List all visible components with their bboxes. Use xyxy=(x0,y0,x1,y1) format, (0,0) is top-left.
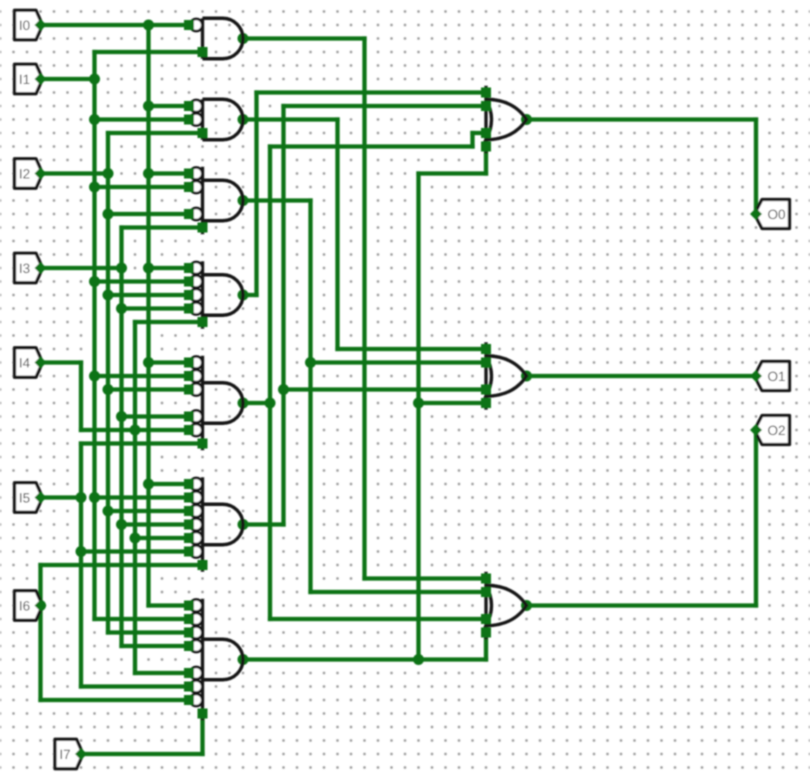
input pin I3 xyxy=(15,253,47,282)
OR gate U10 (4 inputs from U1,U3,U5,U7) driving O2 xyxy=(481,572,527,640)
AND gate U4, 5 inputs (~I0..~I3,I4), term 4 xyxy=(184,261,243,329)
wire net O1 (OR U9 output to pin O1) xyxy=(521,371,756,382)
input pin I2 xyxy=(15,159,47,188)
wire net I3 (pin I3 riser x=121.5 feeding U3.in4 and inverted inputs of U4..U7) xyxy=(41,228,203,647)
AND gate U7, 8 inputs (~I0..~I6,I7), term 7 xyxy=(184,599,243,721)
svg-text:I1: I1 xyxy=(19,72,30,87)
OR gate U9 (4 inputs from U2,U3,U6,U7) driving O1 xyxy=(481,342,527,410)
wire net U2 output (AND U2 to OR U9 input-1 via riser x=337.5) xyxy=(238,114,487,349)
wire net I4 (pin I4 elbow to riser x=135 feeding U4.in5 and inverted inputs of U5..U7) xyxy=(41,322,203,673)
wire net O2 (OR U10 output to pin O2) xyxy=(521,430,756,611)
wire net U7 output (AND U7 to OR U10 input-4, riser x=418.5 to OR U9 input-4 and OR U8 input-4) xyxy=(238,147,487,666)
wire net I7 (pin I7 up into U7.in8) xyxy=(81,714,203,755)
AND gate U6, 7 inputs (~I0..~I5,I6), term 6 xyxy=(184,477,243,572)
input pin I1 xyxy=(15,64,47,93)
input pin I0 xyxy=(15,10,47,39)
svg-text:I2: I2 xyxy=(19,166,30,181)
svg-text:O0: O0 xyxy=(767,207,785,222)
wire net U4 output (AND U4 up riser x=256.5 to OR U8 input-1) xyxy=(238,93,487,301)
AND gate U2, 3 inputs (~I0,~I1,I2), term 2 xyxy=(184,99,243,140)
wire net I0 (pin I0 to inverted input-1 of U1..U7, riser x=148.5) xyxy=(41,20,190,606)
svg-text:I6: I6 xyxy=(19,598,30,613)
input pin I5 xyxy=(15,483,47,512)
wire net O0 (OR U8 output to pin O0) xyxy=(521,114,756,214)
wire net U1 output (AND U1 to OR U10 input-1 via riser x=364.5) xyxy=(238,33,487,579)
output pin O2 xyxy=(750,416,790,445)
wire net I1 (pin I1 riser x=94.5 feeding U1.in2 and inverted inputs of U2..U7) xyxy=(41,52,203,619)
AND gate U1, 2 inputs (in1 inverted ~I0, in2 I1), term 1 xyxy=(184,18,243,59)
wire net U6 output (AND U6 riser x=283.5 up to OR U8 input-2 and OR U9 input-3) xyxy=(238,106,487,530)
output pin O0 xyxy=(750,200,790,229)
AND gate U5, 6 inputs (~I0..~I4,I5), term 5 xyxy=(184,356,243,451)
input pin I7 xyxy=(55,739,87,768)
wire net I6 (pin I6 riser x=40.5 feeding U6.in7 and inverted input U7.in7) xyxy=(35,565,203,700)
svg-text:I3: I3 xyxy=(19,261,30,276)
svg-text:I0: I0 xyxy=(19,18,30,33)
wire net U5 output (AND U5 riser x=270 up to OR U8 input-3 jog and down to OR U10 input-3) xyxy=(238,133,487,619)
AND gate U3, 4 inputs (~I0,~I1,~I2,I3), term 3 xyxy=(184,167,243,235)
OR gate U8 (4 inputs from U4,U6,U5,U7) driving O0 xyxy=(481,86,527,154)
svg-text:I7: I7 xyxy=(59,747,70,762)
svg-text:O2: O2 xyxy=(767,423,785,438)
wire net I2 (pin I2 riser x=108 feeding U2.in3 and inverted inputs of U3..U7) xyxy=(41,133,203,633)
input pin I4 xyxy=(15,348,47,377)
wire net I5 (pin I5 riser x=81 feeding U5.in6 and inverted inputs of U6,U7) xyxy=(41,444,203,687)
output pin O1 xyxy=(750,362,790,391)
svg-text:I5: I5 xyxy=(19,490,30,505)
input pin I6 xyxy=(15,591,47,620)
svg-text:O1: O1 xyxy=(767,369,785,384)
svg-text:I4: I4 xyxy=(19,355,31,370)
wire net U3 output (AND U3 to OR U9 input-2 and OR U10 input-2 via riser x=310.5) xyxy=(238,195,487,592)
